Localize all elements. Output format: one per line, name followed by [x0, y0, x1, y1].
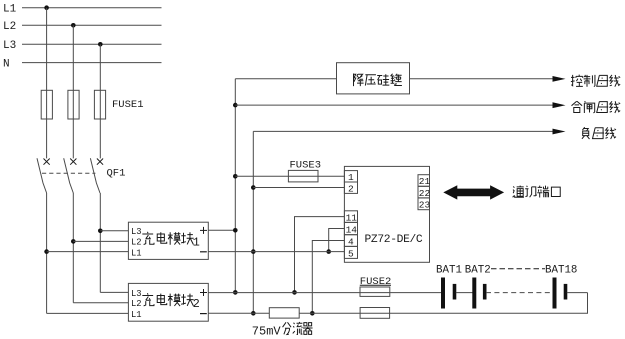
ic U1 pin 5 box	[344, 246, 357, 259]
charger module2 pin L1	[131, 310, 142, 320]
svg-text:1: 1	[348, 172, 354, 183]
svg-text:N: N	[3, 59, 10, 71]
breaker QF1 blade pole2	[64, 158, 74, 193]
label BAT1	[436, 265, 462, 277]
label FUSE3	[290, 159, 322, 171]
charger module2 plus	[200, 289, 207, 296]
svg-text:PZ72-DE/C: PZ72-DE/C	[365, 234, 423, 246]
wire phase3 to modules	[99, 193, 101, 292]
node N label	[3, 59, 10, 71]
fuse FUSE2b on negative row	[360, 308, 390, 319]
fuse FUSE2 label underline	[360, 284, 391, 286]
battery BAT2 plate long	[473, 278, 476, 308]
svg-text:FUSE3: FUSE3	[290, 159, 322, 171]
wire fuse2 to BAT1	[390, 292, 441, 294]
wire pin1	[235, 175, 344, 177]
junction phase3 / module1 L3	[98, 229, 103, 234]
junction plus bus / closing bus	[233, 103, 238, 108]
breaker QF1 blade pole1	[37, 158, 47, 193]
svg-text:1: 1	[193, 236, 200, 250]
ic U1 pin 22 box	[418, 186, 431, 199]
ic U1 pin 2 box	[344, 182, 357, 194]
wire battery return corner	[208, 293, 587, 314]
shunt resistor 75mV	[269, 308, 299, 318]
node L2 label	[3, 21, 16, 33]
wire rail L1	[22, 7, 162, 9]
svg-text:2: 2	[348, 183, 354, 194]
label BAT2	[465, 265, 491, 277]
charger module1 minus	[200, 251, 207, 253]
label 负母线	[582, 127, 616, 139]
label 控制母线	[571, 75, 620, 87]
label FUSE1	[112, 99, 144, 111]
charger module1 pin L2	[131, 238, 142, 248]
junction phase2 / module1 L2	[71, 239, 76, 244]
wire pin5 from module1 minus	[208, 251, 344, 253]
svg-text:QF1: QF1	[107, 168, 126, 180]
charger module1 pin L1	[131, 248, 142, 258]
wire rail N	[22, 62, 162, 64]
svg-text:L1: L1	[3, 4, 17, 16]
breaker QF1 contact x pole2	[70, 159, 76, 165]
wire negative bus horizontal	[253, 130, 554, 132]
fuse FUSE1 pole2	[68, 90, 79, 119]
label 合闸母线	[572, 101, 621, 113]
label 降压硅链	[354, 74, 402, 87]
battery BAT2 plate short	[483, 284, 486, 299]
wire phase1 to modules	[46, 193, 48, 313]
fuse FUSE2	[360, 287, 390, 296]
wire module1 L1 input	[47, 251, 129, 253]
charger module U3 box 充电模块2	[128, 283, 208, 321]
svg-text:FUSE2: FUSE2	[360, 276, 392, 288]
junction L3 tap	[98, 42, 103, 47]
svg-text:L2: L2	[3, 21, 16, 33]
wire phase1 drop	[46, 8, 48, 159]
wire control bus right	[410, 78, 555, 80]
label PZ72-DE/C	[365, 234, 423, 246]
svg-text:BAT2: BAT2	[465, 265, 491, 277]
svg-text:L2: L2	[131, 238, 142, 248]
fuse FUSE1 pole3	[94, 90, 105, 119]
wire battery chain dashed	[486, 292, 553, 294]
wire closing bus	[235, 104, 554, 106]
svg-text:FUSE1: FUSE1	[112, 99, 144, 111]
wire module2 L3 input	[100, 291, 128, 293]
arrowhead control bus	[553, 76, 566, 82]
ic U1 box PZ72-DE/C	[344, 166, 429, 262]
junction pin14 wire / minus row	[326, 249, 331, 254]
junction pin11 wire / plus row	[292, 290, 297, 295]
junction pin4 wire / shunt row	[310, 311, 315, 316]
label FUSE2	[360, 276, 392, 288]
svg-text:L1: L1	[131, 248, 142, 258]
label 通讯端口	[513, 186, 561, 198]
ic U1 pin 4 box	[344, 235, 357, 248]
label QF1	[107, 168, 126, 180]
breaker QF1 contact x pole1	[44, 159, 50, 165]
junction L2 tap	[71, 23, 76, 28]
battery BAT18 plate long	[553, 278, 556, 308]
comm port double arrow	[443, 185, 504, 199]
breaker QF1 contact x pole3	[97, 159, 103, 165]
charger module2 pin L2	[131, 299, 142, 309]
wire module1 plus output	[208, 229, 235, 231]
charger module1 pin L3	[131, 227, 142, 237]
charger module1 plus	[200, 227, 207, 234]
wire pin11	[295, 217, 345, 293]
wire BAT18 to return	[567, 292, 588, 294]
junction neg bus / pin2 wire	[251, 185, 256, 190]
junction plus bus / module2 plus	[233, 290, 238, 295]
wire rail L2	[22, 24, 162, 26]
wire phase2 to modules	[72, 193, 74, 303]
charger module2 pin L3	[131, 289, 142, 299]
node L1 label	[3, 4, 17, 16]
breaker QF1 blade pole3	[90, 158, 100, 193]
svg-text:4: 4	[348, 237, 354, 248]
breaker QF1 linkage (dashed)	[42, 172, 95, 174]
svg-text:L3: L3	[131, 227, 142, 237]
wire module1 L3 input	[100, 230, 128, 232]
charger module U2 box 充电模块1	[128, 222, 208, 259]
svg-text:L3: L3	[131, 289, 142, 299]
wire module2 plus output	[208, 292, 390, 294]
svg-text:5: 5	[348, 248, 354, 259]
wire control bus left	[235, 78, 336, 80]
junction L1 tap	[44, 5, 49, 10]
ic U1 pin 1 box	[344, 171, 357, 183]
charger module2 title 充电模块	[142, 293, 199, 311]
wire pin14	[329, 229, 345, 252]
wire BAT1-BAT2	[456, 292, 473, 294]
svg-text:11: 11	[346, 212, 358, 223]
svg-text:BAT1: BAT1	[436, 265, 462, 277]
battery BAT1 plate short	[453, 284, 456, 299]
wire module2 L1 input	[47, 312, 129, 314]
ic U1 pin 21 box	[418, 175, 431, 188]
wire module1 L2 input	[73, 240, 128, 242]
dropper box 降压硅链	[337, 63, 410, 94]
label 75mV分流器	[252, 322, 313, 339]
node L3 label	[3, 40, 16, 52]
wire rail L3	[22, 43, 162, 45]
ic U1 pin 23 box	[418, 198, 431, 211]
svg-text:14: 14	[346, 225, 358, 236]
junction phase1 / module1 L1	[44, 249, 49, 254]
battery BAT18 plate short	[564, 284, 567, 299]
svg-text:L1: L1	[131, 310, 142, 320]
wire positive bus vertical	[234, 79, 236, 293]
arrowhead closing bus	[553, 102, 566, 108]
label BAT18	[545, 265, 577, 277]
wire phase2 drop	[72, 25, 74, 158]
charger module1 title 充电模块	[142, 232, 199, 250]
arrowhead negative bus	[553, 129, 566, 135]
charger module2 minus	[200, 313, 207, 315]
wire negative bus vertical	[252, 131, 254, 313]
wire pin4	[312, 241, 344, 314]
label dash BAT2-BAT18	[491, 268, 545, 270]
svg-text:L2: L2	[131, 299, 142, 309]
wire pin2	[253, 187, 344, 189]
svg-text:L3: L3	[3, 40, 16, 52]
svg-text:75mV: 75mV	[252, 325, 282, 339]
svg-text:2: 2	[193, 297, 200, 311]
fuse FUSE3	[288, 170, 318, 182]
junction plus bus / FUSE3 wire	[233, 174, 238, 179]
svg-text:23: 23	[419, 200, 431, 211]
junction plus bus / module1 plus	[233, 228, 238, 233]
battery BAT1 plate long	[442, 278, 445, 308]
junction neg bus / module1 minus	[251, 249, 256, 254]
svg-text:21: 21	[419, 176, 431, 187]
junction neg bus / module2 minus	[251, 311, 256, 316]
ic U1 pin 14 box	[344, 222, 357, 235]
wire phase3 drop	[99, 44, 101, 158]
svg-text:BAT18: BAT18	[545, 265, 577, 277]
svg-text:22: 22	[419, 188, 431, 199]
wire module2 L2 input	[73, 302, 128, 304]
fuse FUSE1 pole1	[41, 90, 52, 119]
ic U1 pin 11 box	[344, 211, 357, 224]
